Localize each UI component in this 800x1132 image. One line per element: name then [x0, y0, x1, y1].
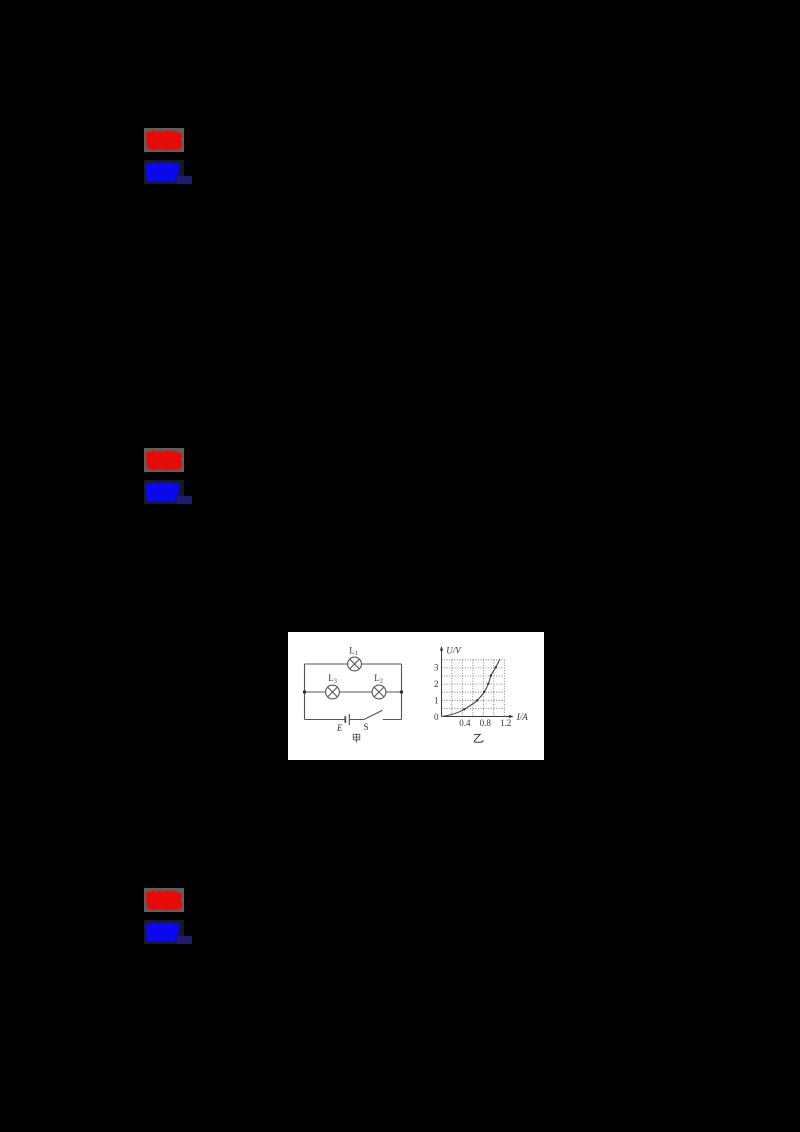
- wire left vertical: [304, 664, 306, 720]
- svg-text:I/A: I/A: [516, 711, 528, 721]
- analysis label (blue) block 3: [144, 920, 184, 944]
- svg-text:0.4: 0.4: [459, 718, 471, 728]
- svg-text:2: 2: [434, 679, 439, 689]
- graph grid dotted: [442, 659, 505, 716]
- answer label (red) block 2: [144, 448, 184, 472]
- junction node right: [400, 690, 403, 693]
- battery E: [345, 714, 349, 725]
- svg-text:0.8: 0.8: [480, 718, 492, 728]
- label jia (Chinese) under circuit: [353, 734, 360, 742]
- svg-text:L1: L1: [349, 645, 358, 657]
- y axis U/V: [441, 648, 443, 716]
- figure panel (white): [288, 632, 544, 760]
- svg-text:1.2: 1.2: [500, 718, 511, 728]
- svg-text:3: 3: [434, 662, 439, 672]
- wire top branch: [305, 663, 402, 665]
- svg-text:S: S: [364, 722, 369, 732]
- U-I characteristic curve: [442, 659, 500, 716]
- svg-text:0: 0: [434, 712, 439, 722]
- analysis label (blue) block 1: [144, 160, 184, 184]
- svg-text:1: 1: [434, 695, 439, 705]
- lamp L2: [372, 685, 386, 699]
- wire right vertical: [401, 664, 403, 720]
- wire bottom branch: [305, 718, 402, 720]
- x axis I/A: [442, 715, 512, 717]
- graph axes: [442, 648, 512, 716]
- answer label (red) block 3: [144, 888, 184, 912]
- svg-text:U/V: U/V: [446, 645, 462, 655]
- x axis arrowhead: [509, 714, 514, 717]
- svg-text:L3: L3: [328, 672, 337, 684]
- svg-text:E: E: [336, 723, 343, 733]
- label yi (Chinese) under graph: [474, 734, 483, 742]
- svg-text:L2: L2: [374, 672, 383, 684]
- wire middle branch: [305, 691, 402, 693]
- data points on curve: [463, 666, 497, 710]
- switch S blade: [364, 710, 383, 719]
- lamp L1: [348, 657, 362, 671]
- answer label (red) block 1: [144, 128, 184, 152]
- lamp L3: [326, 685, 340, 699]
- y axis arrowhead: [440, 646, 443, 651]
- analysis label (blue) block 2: [144, 480, 184, 504]
- junction node left: [303, 690, 306, 693]
